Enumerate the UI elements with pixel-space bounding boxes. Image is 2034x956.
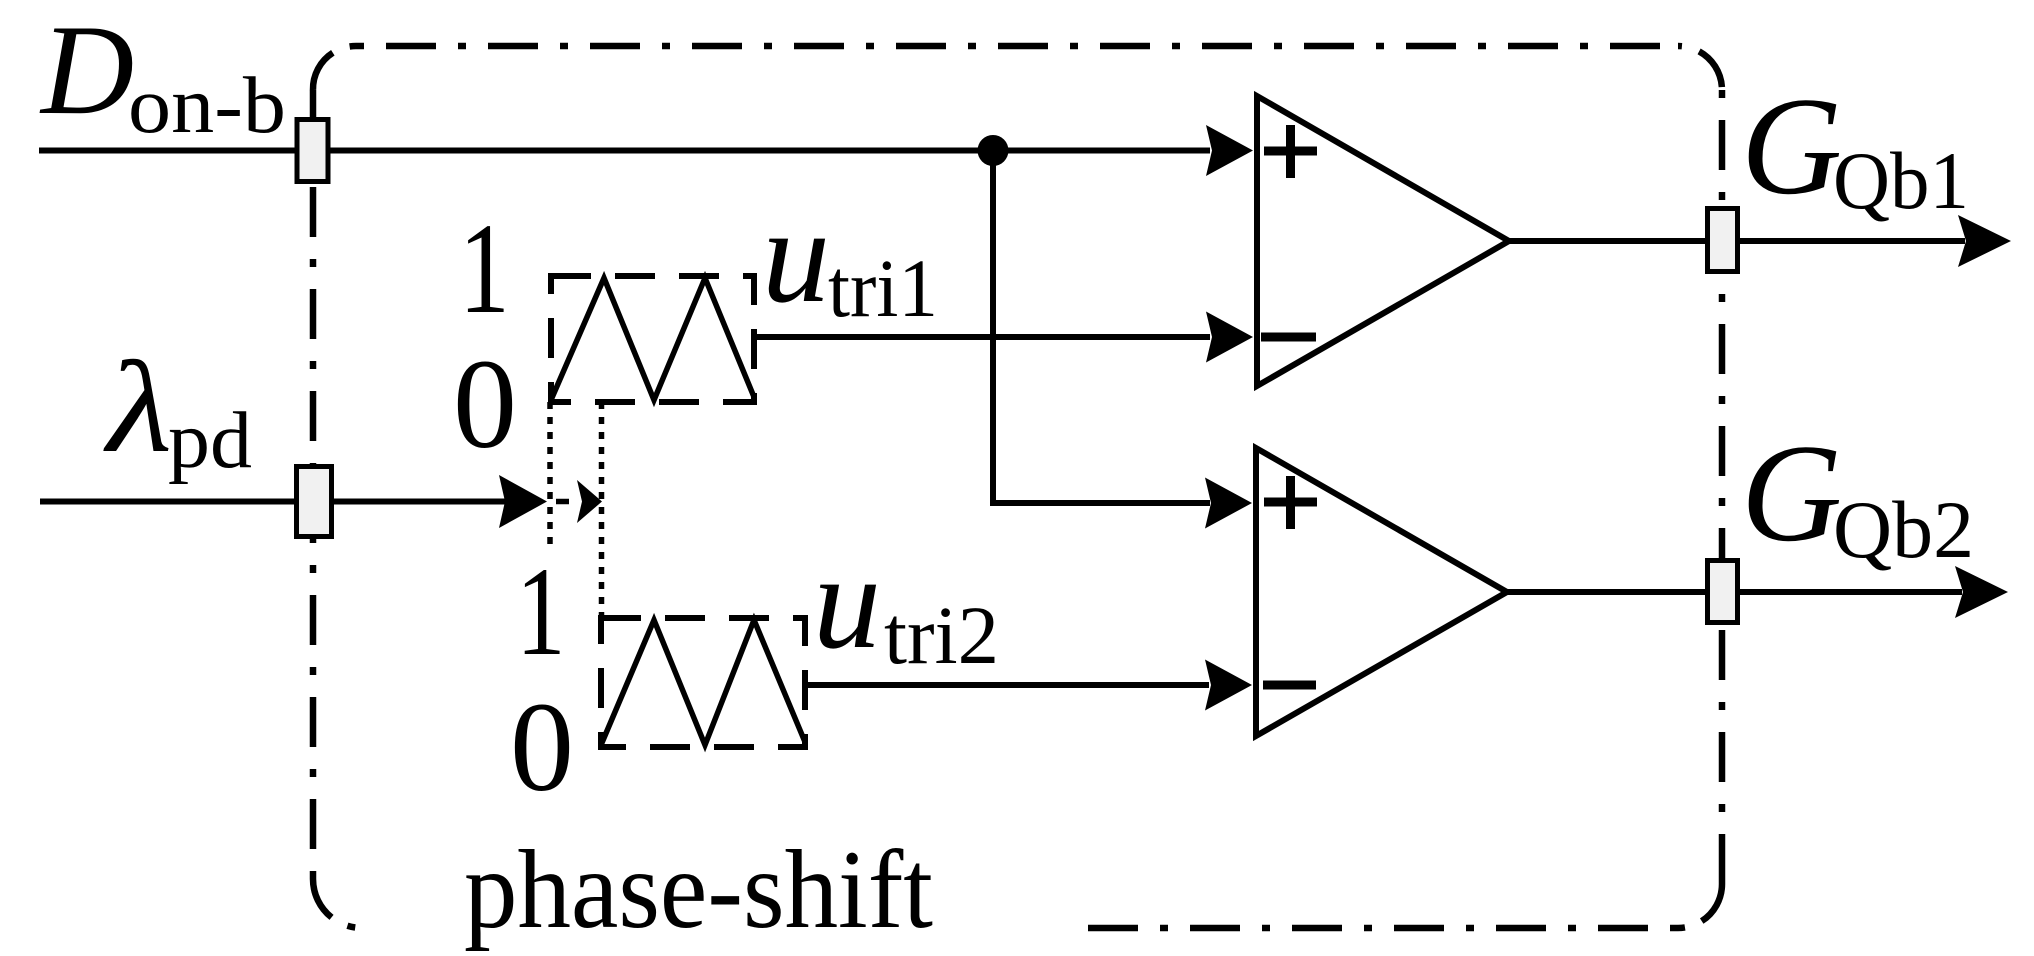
svg-text:tri1: tri1 — [828, 242, 938, 334]
svg-text:1: 1 — [516, 541, 566, 682]
svg-text:0: 0 — [510, 676, 574, 818]
svg-text:on-b: on-b — [128, 60, 286, 150]
svg-text:λ: λ — [103, 334, 173, 480]
svg-text:0: 0 — [453, 333, 517, 475]
svg-text:pd: pd — [168, 395, 252, 485]
svg-text:G: G — [1741, 416, 1842, 571]
svg-text:Qb1: Qb1 — [1833, 135, 1969, 226]
svg-text:G: G — [1741, 69, 1842, 224]
svg-text:u: u — [762, 181, 830, 331]
svg-text:tri2: tri2 — [884, 589, 999, 681]
svg-text:phase-shift: phase-shift — [464, 828, 933, 952]
svg-text:u: u — [813, 527, 881, 677]
svg-text:D: D — [39, 0, 134, 141]
svg-text:1: 1 — [459, 197, 510, 341]
svg-text:Qb2: Qb2 — [1833, 484, 1974, 575]
